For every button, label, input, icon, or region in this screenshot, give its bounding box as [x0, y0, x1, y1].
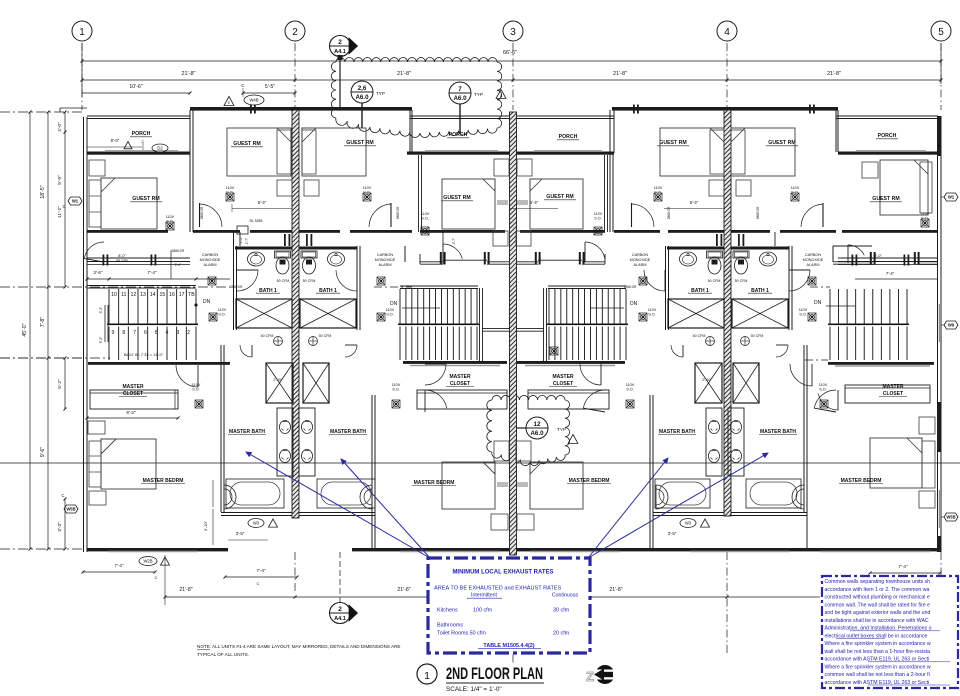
svg-text:21'-8": 21'-8" — [827, 71, 841, 77]
svg-text:21'-8": 21'-8" — [181, 71, 195, 77]
minimum local exhaust rates table (blue) — [428, 558, 590, 653]
svg-text:18'-5": 18'-5" — [40, 185, 46, 198]
svg-text:S.O.: S.O. — [392, 388, 400, 392]
svg-text:50 CFM: 50 CFM — [693, 334, 706, 338]
svg-text:4: 4 — [724, 27, 730, 38]
svg-text:2868 DR: 2868 DR — [200, 206, 204, 219]
master closet unit4 — [828, 362, 934, 365]
guest rm unit2-A bed (against wall2) — [302, 128, 366, 176]
porch top edges — [87, 115, 190, 117]
svg-text:21'-8": 21'-8" — [397, 71, 411, 77]
svg-text:2868 DR: 2868 DR — [396, 206, 400, 219]
svg-text:PORCH: PORCH — [132, 131, 151, 137]
svg-text:common wall shall be not less: common wall shall be not less than a 2-h… — [825, 672, 930, 678]
svg-text:CLOSET: CLOSET — [883, 391, 903, 397]
revision cloud top (around markers 2,6/A6.0 and 7/A6.0) — [331, 58, 501, 138]
exterior wall right — [937, 116, 939, 552]
svg-text:110V: 110V — [654, 186, 663, 190]
svg-text:TYPICAL OF ALL UNITS.: TYPICAL OF ALL UNITS. — [197, 652, 249, 657]
svg-text:7'-4": 7'-4" — [256, 568, 266, 573]
svg-text:MASTER BATH: MASTER BATH — [659, 429, 695, 435]
master bath vanities + sinks wall4 — [706, 408, 722, 476]
svg-text:CARBON: CARBON — [377, 253, 394, 257]
svg-text:NOTE: ALL UNITS #1-4 ARE SAME: NOTE: ALL UNITS #1-4 ARE SAME LAYOUT, MA… — [197, 644, 400, 649]
stairs unit3 — [548, 285, 626, 287]
svg-text:GUEST RM: GUEST RM — [659, 140, 686, 146]
unit2/3 nightstands — [491, 514, 508, 530]
unit2-B / unit3-B guest rm side walls — [418, 155, 420, 232]
svg-text:21'-8": 21'-8" — [613, 71, 627, 77]
svg-text:W9: W9 — [948, 323, 955, 328]
svg-text:A4.1: A4.1 — [334, 616, 346, 622]
horizontal reference dash-dot lines left margin — [0, 111, 85, 113]
svg-text:S.O.: S.O. — [218, 313, 226, 317]
svg-text:2'-10": 2'-10" — [273, 378, 283, 382]
wall tag W1 left — [68, 197, 82, 205]
svg-text:A6.0: A6.0 — [355, 94, 369, 101]
svg-text:16: 16 — [169, 292, 175, 298]
master bath shaft x-boxes lower wall4 — [695, 363, 722, 403]
svg-text:7'-4": 7'-4" — [114, 563, 124, 568]
svg-text:110V: 110V — [166, 215, 175, 219]
svg-text:S.O.: S.O. — [226, 191, 234, 195]
svg-text:Common walls separating townho: Common walls separating townhouse units … — [825, 579, 931, 585]
bath1 walls flanking wall4 — [667, 247, 724, 250]
svg-text:MASTER: MASTER — [449, 374, 471, 380]
master bath toilets (half visible) — [224, 485, 236, 509]
bath1 fixtures unit1: toilet — [275, 251, 291, 274]
110V S.O. smoke detector symbols — [166, 222, 174, 230]
stairwell side walls units 2/3 — [479, 288, 481, 363]
left bedroom dim 3-0 — [212, 480, 214, 507]
svg-text:W1: W1 — [948, 195, 955, 200]
svg-text:installations shall be in acco: installations shall be in accordance wit… — [825, 618, 929, 624]
svg-text:1: 1 — [79, 27, 85, 38]
svg-text:ALARM: ALARM — [378, 263, 391, 267]
master bath tubs wall4 — [655, 479, 710, 508]
svg-text:9'-2": 9'-2" — [126, 410, 136, 415]
master bedroom unit1 bed — [101, 439, 156, 489]
porch1 annotation 8-0 — [87, 146, 142, 148]
guest rm unit2/3 beds flanking wall3 — [442, 179, 495, 229]
svg-text:50 CFM: 50 CFM — [319, 334, 332, 338]
grid column bubbles 1-5 — [72, 21, 92, 41]
dressers above beds flanking wall3 — [494, 159, 509, 176]
unit4 guest rm bottom window wall — [838, 257, 938, 259]
detail marker 7/A6.0 — [449, 82, 471, 104]
svg-text:TYP: TYP — [557, 427, 566, 432]
svg-text:MONOXIDE: MONOXIDE — [375, 258, 396, 262]
unit1 guest rm A bottom window wall — [87, 257, 190, 259]
svg-text:15: 15 — [159, 292, 165, 298]
svg-text:2868 DR: 2868 DR — [230, 285, 243, 289]
svg-text:5'-3": 5'-3" — [99, 306, 103, 314]
svg-text:50 CFM: 50 CFM — [303, 279, 316, 283]
svg-text:accordance with Item 1 or 2. T: accordance with Item 1 or 2. The common … — [825, 587, 930, 593]
svg-text:10: 10 — [111, 292, 117, 298]
svg-text:2: 2 — [338, 606, 342, 613]
svg-text:8: 8 — [122, 330, 125, 336]
svg-text:S.O.: S.O. — [166, 220, 174, 224]
svg-text:CARBON: CARBON — [202, 253, 219, 257]
svg-text:2'-10": 2'-10" — [702, 378, 712, 382]
svg-text:C: C — [61, 493, 64, 498]
svg-text:100 cfm: 100 cfm — [473, 608, 493, 614]
bath1 fixtures unit1: sink — [248, 252, 265, 266]
warning triangle A top — [496, 90, 506, 99]
revision cloud bottom middle (around marker 12/A6.0) — [487, 395, 570, 465]
svg-text:4'-0": 4'-0" — [57, 122, 63, 132]
svg-text:2868 DR: 2868 DR — [667, 206, 671, 219]
svg-text:110V: 110V — [218, 308, 227, 312]
svg-text:3'-3": 3'-3" — [57, 522, 63, 532]
shaft x-boxes flanking wall2 — [236, 299, 292, 328]
master closet unit1 — [88, 362, 230, 365]
bath1 fixtures unit3: toilet — [707, 251, 723, 274]
svg-text:110V: 110V — [386, 308, 395, 312]
svg-text:110V: 110V — [392, 383, 401, 387]
svg-text:MINIMUM LOCAL EXHAUST RATES: MINIMUM LOCAL EXHAUST RATES — [452, 570, 553, 576]
top wall window ticks — [633, 105, 635, 114]
svg-text:C: C — [257, 581, 260, 586]
svg-text:7: 7 — [133, 330, 136, 336]
detail marker 12/A6.0 — [526, 417, 548, 439]
svg-text:110V: 110V — [421, 212, 430, 216]
fan symbols below shafts wall2 — [274, 337, 283, 346]
section marker 2/A4.1 bottom — [330, 552, 358, 624]
svg-text:W3: W3 — [685, 521, 692, 526]
svg-text:3'-6": 3'-6" — [93, 270, 103, 275]
svg-text:110V: 110V — [791, 186, 800, 190]
warning triangle E — [224, 97, 234, 106]
svg-text:2'-4": 2'-4" — [175, 263, 183, 267]
svg-text:2,6: 2,6 — [358, 85, 367, 92]
corridor walls near edges y=263 — [833, 261, 873, 263]
svg-text:20 cfm: 20 cfm — [553, 631, 570, 637]
svg-text:CLOSET: CLOSET — [450, 381, 470, 387]
top exterior wall segments (thick) — [190, 107, 295, 111]
party wall hatched at grid 3 — [510, 112, 517, 555]
svg-text:MASTER BATH: MASTER BATH — [229, 429, 265, 435]
svg-text:3'-10": 3'-10" — [203, 520, 208, 531]
svg-text:SCALE: 1/4" = 1'-0": SCALE: 1/4" = 1'-0" — [446, 686, 502, 693]
bath1 fixtures unit4: toilet — [733, 251, 749, 274]
svg-text:110V: 110V — [226, 186, 235, 190]
corridor walls near wall3 y=263 — [420, 261, 443, 263]
svg-text:7'-4": 7'-4" — [147, 270, 157, 275]
svg-text:110V: 110V — [799, 308, 808, 312]
svg-text:S.O.: S.O. — [594, 217, 602, 221]
wall tags right edge — [944, 193, 958, 201]
svg-text:W3: W3 — [253, 521, 260, 526]
svg-text:Where a fire sprinkler system: Where a fire sprinkler system in accorda… — [825, 664, 931, 670]
fan symbols below shafts wall4 — [706, 337, 715, 346]
svg-text:7'-4": 7'-4" — [898, 564, 908, 569]
svg-text:CARBON: CARBON — [805, 253, 822, 257]
party wall hatched at grid 2 — [292, 110, 299, 518]
guest room band bottom walls y=230 — [87, 230, 168, 233]
svg-text:wall shall be not less than a: wall shall be not less than a 1-hour fir… — [825, 649, 931, 655]
svg-text:MASTER BEDRM: MASTER BEDRM — [143, 478, 184, 484]
svg-text:PORCH: PORCH — [878, 133, 897, 139]
bottom exterior wall — [87, 548, 228, 551]
misc interior walls guest band — [239, 232, 241, 246]
svg-text:MASTER BEDRM: MASTER BEDRM — [841, 478, 882, 484]
svg-text:CLOSET: CLOSET — [123, 391, 143, 397]
svg-text:B#11' W: 7.33 = 11'-0": B#11' W: 7.33 = 11'-0" — [124, 352, 164, 357]
svg-text:5: 5 — [155, 330, 158, 336]
svg-text:66'-6": 66'-6" — [503, 50, 517, 56]
svg-text:2: 2 — [338, 39, 342, 46]
svg-text:110V: 110V — [594, 212, 603, 216]
svg-text:D2: D2 — [157, 146, 163, 151]
svg-text:S.O.: S.O. — [626, 388, 634, 392]
svg-text:4: 4 — [166, 330, 169, 336]
svg-text:50 CFM: 50 CFM — [751, 334, 764, 338]
svg-text:TB: TB — [188, 292, 195, 298]
svg-text:110V: 110V — [648, 308, 657, 312]
svg-text:W5B: W5B — [946, 515, 955, 520]
master bath shaft x-boxes lower wall2 — [266, 363, 293, 403]
closet niche walls above stairs — [233, 232, 235, 247]
svg-text:110V: 110V — [626, 383, 635, 387]
svg-text:A6.0: A6.0 — [453, 95, 467, 102]
svg-text:S.O.: S.O. — [386, 313, 394, 317]
svg-text:7: 7 — [458, 86, 462, 93]
svg-text:common wall. The wall shall be: common wall. The wall shall be rated for… — [825, 602, 931, 608]
svg-text:constructed without plumbing o: constructed without plumbing or mechanic… — [825, 595, 930, 601]
svg-text:AREA TO BE EXHAUSTED and EXH: AREA TO BE EXHAUSTED and EXHAUST RATES — [434, 586, 562, 592]
bath1 walls flanking wall2 — [235, 247, 292, 250]
svg-text:PORCH: PORCH — [559, 134, 578, 140]
bottom small dims left 7-4 — [83, 571, 155, 573]
svg-text:Toilet Rooms 50 cfm: Toilet Rooms 50 cfm — [437, 631, 486, 637]
master bedroom unit2/3 beds flanking wall3 — [442, 462, 495, 509]
svg-text:Kitchens: Kitchens — [437, 608, 458, 614]
svg-text:A4.1: A4.1 — [334, 49, 346, 55]
svg-text:MASTER BATH: MASTER BATH — [330, 429, 366, 435]
svg-text:8'-0": 8'-0" — [118, 254, 126, 258]
bottom right dim 7-4 — [870, 572, 940, 574]
master bedroom unit4 bed — [870, 438, 922, 488]
closet niche jambs flanking party walls — [284, 234, 286, 246]
svg-text:5'-2": 5'-2" — [57, 379, 63, 389]
svg-text:C: C — [62, 204, 65, 209]
svg-text:21'-8": 21'-8" — [609, 587, 622, 593]
svg-text:11: 11 — [121, 292, 126, 298]
master bath side walls — [220, 345, 222, 512]
svg-text:MASTER BEDRM: MASTER BEDRM — [569, 478, 610, 484]
svg-text:5'-3": 5'-3" — [99, 336, 103, 344]
recessed bath band ledges — [221, 512, 375, 514]
svg-text:W5B: W5B — [66, 507, 75, 512]
svg-text:30 cfm: 30 cfm — [553, 608, 570, 614]
svg-text:Bathrooms: Bathrooms — [437, 623, 463, 629]
bath1 fixtures unit4: sink — [760, 252, 777, 266]
svg-text:TYP: TYP — [376, 91, 385, 96]
svg-text:7'-8": 7'-8" — [40, 317, 46, 327]
svg-text:GUEST RM: GUEST RM — [546, 194, 573, 200]
svg-text:7'-4": 7'-4" — [886, 271, 895, 276]
svg-text:10'-6": 10'-6" — [129, 84, 142, 90]
svg-text:Z: Z — [586, 669, 594, 684]
svg-text:2868 DR: 2868 DR — [624, 285, 637, 289]
svg-text:S.O.: S.O. — [648, 313, 656, 317]
shaft x-boxes flanking wall4 — [668, 299, 724, 328]
bath1 fixtures unit2: sink — [328, 252, 345, 266]
svg-text:DN: DN — [814, 300, 822, 306]
svg-text:MASTER: MASTER — [122, 384, 144, 390]
section marker 2/A4.1 top — [330, 36, 358, 111]
svg-text:Intermittent: Intermittent — [471, 593, 498, 599]
blue code note text block bottom right — [822, 576, 958, 688]
guest room partition walls vertical — [189, 152, 191, 232]
svg-text:CARBON: CARBON — [632, 253, 649, 257]
underlined code references in note — [836, 638, 885, 640]
svg-text:Continuous: Continuous — [552, 593, 579, 599]
svg-text:13: 13 — [140, 292, 146, 298]
corridor wall jambs near wall3 — [440, 252, 442, 265]
detail marker 2,6/A6.0 — [351, 81, 373, 103]
master closet unit2 — [403, 361, 507, 364]
master bath tubs wall2 — [226, 479, 284, 508]
porch side jogs — [189, 110, 191, 152]
svg-text:A6.0: A6.0 — [530, 430, 544, 437]
svg-text:RL 5288: RL 5288 — [250, 219, 263, 223]
svg-text:GUEST RM: GUEST RM — [443, 195, 470, 201]
svg-text:2'-7": 2'-7" — [245, 238, 249, 244]
bath recess annotations — [248, 519, 264, 528]
svg-text:GUEST RM: GUEST RM — [233, 141, 260, 147]
svg-text:S.O.: S.O. — [421, 217, 429, 221]
bath1 fixtures unit3: sink — [680, 252, 697, 266]
svg-text:GUEST RM: GUEST RM — [768, 140, 795, 146]
svg-text:ALARM: ALARM — [633, 263, 646, 267]
svg-text:TYP: TYP — [474, 92, 483, 97]
top dimension line overall 66-6 — [82, 60, 941, 62]
svg-text:5'-4": 5'-4" — [530, 200, 539, 205]
svg-text:2: 2 — [187, 330, 190, 336]
small dim 5-4 — [232, 208, 292, 210]
guest rm unit4-B bed — [880, 160, 928, 215]
svg-text:S.O.: S.O. — [921, 217, 929, 221]
svg-text:CLOSET: CLOSET — [553, 381, 573, 387]
svg-text:GUEST RM: GUEST RM — [872, 196, 899, 202]
master closet unit3 — [517, 361, 625, 364]
svg-text:S.O.: S.O. — [192, 388, 200, 392]
svg-text:5'-9": 5'-9" — [57, 175, 63, 185]
svg-text:14: 14 — [150, 292, 156, 298]
master bath vanities + sinks wall2 — [277, 408, 293, 476]
guest rm unit1-B bed (against wall2) — [227, 128, 291, 176]
svg-text:W4B: W4B — [249, 98, 258, 103]
left margin vertical dimension lines — [29, 112, 31, 549]
svg-text:BR 5288: BR 5288 — [116, 259, 128, 263]
party wall hatched at grid 4 — [724, 110, 731, 516]
svg-text:MASTER BEDRM: MASTER BEDRM — [414, 480, 455, 486]
svg-text:2868 DR: 2868 DR — [172, 249, 185, 253]
porch bottom walls with window band — [87, 152, 190, 155]
blue leader arrows to exhaust table — [246, 452, 430, 558]
svg-text:DN: DN — [390, 301, 398, 307]
svg-text:8'-0": 8'-0" — [111, 138, 120, 143]
svg-text:5'-5": 5'-5" — [265, 84, 275, 90]
svg-text:5: 5 — [938, 27, 944, 38]
unit2/3 bedroom side walls — [371, 515, 373, 548]
right bath recess annotations — [680, 519, 696, 528]
svg-text:3'-5": 3'-5" — [236, 531, 245, 536]
svg-text:50 CFM: 50 CFM — [735, 279, 748, 283]
svg-text:50 CFM: 50 CFM — [277, 279, 290, 283]
svg-text:S.O.: S.O. — [819, 388, 827, 392]
svg-text:9'-6": 9'-6" — [40, 447, 46, 457]
svg-text:2868 DR: 2868 DR — [756, 206, 760, 219]
svg-text:S.O.: S.O. — [791, 191, 799, 195]
svg-text:110V: 110V — [363, 186, 372, 190]
exterior wall corner step top-left — [60, 107, 87, 109]
guest rm unit3/4 beds flanking wall4 — [660, 128, 724, 176]
title: 2ND FLOOR PLAN — [417, 664, 437, 684]
svg-text:MASTER: MASTER — [552, 374, 574, 380]
svg-text:12: 12 — [534, 421, 541, 428]
guest rm unit1-A bed — [101, 178, 157, 229]
svg-text:110V: 110V — [921, 212, 930, 216]
bottom small dims mid 7-4 — [225, 576, 297, 578]
svg-text:W2B: W2B — [143, 559, 152, 564]
svg-text:3'-5": 3'-5" — [668, 531, 677, 536]
bottom dimension line 21-8 segments — [165, 596, 428, 598]
svg-text:110V: 110V — [819, 383, 828, 387]
svg-text:DN: DN — [630, 301, 638, 307]
svg-text:GUEST RM: GUEST RM — [346, 140, 373, 146]
exterior wall left — [83, 117, 85, 552]
dressers flanking wall3 at corridor band — [493, 231, 508, 246]
svg-text:ALARM: ALARM — [806, 263, 819, 267]
svg-text:50 CFM: 50 CFM — [261, 334, 274, 338]
svg-text:S.O.: S.O. — [799, 313, 807, 317]
svg-text:6: 6 — [144, 330, 147, 336]
wall tag W5B left — [64, 505, 78, 513]
unit1 closet lower dim 9-2 — [87, 417, 178, 419]
svg-text:21'-8": 21'-8" — [397, 587, 410, 593]
svg-text:S.O.: S.O. — [363, 191, 371, 195]
svg-text:Where a fire sprinkler system: Where a fire sprinkler system in accorda… — [825, 641, 931, 647]
svg-text:S.O.: S.O. — [654, 191, 662, 195]
stairs unit1 (two runs with numbers) — [108, 289, 110, 324]
svg-text:5'-4": 5'-4" — [690, 200, 699, 205]
svg-text:DN: DN — [203, 299, 211, 305]
bath1 fixtures unit2: toilet — [301, 251, 317, 274]
svg-text:17: 17 — [179, 292, 185, 298]
svg-text:2ND FLOOR PLAN: 2ND FLOOR PLAN — [446, 665, 543, 683]
stairs unit4 — [829, 289, 831, 324]
svg-text:PORCH: PORCH — [449, 132, 468, 138]
svg-text:45'-0": 45'-0" — [22, 323, 28, 336]
vertical dim right of unit1 bedroom 3-10 — [639, 135, 641, 248]
svg-text:and be tight against exterior: and be tight against exterior walls and … — [825, 610, 931, 616]
svg-text:MONOXIDE: MONOXIDE — [803, 258, 824, 262]
svg-text:12: 12 — [130, 292, 136, 298]
interior wall left of unit1 stair — [86, 362, 88, 548]
svg-text:GUEST RM: GUEST RM — [132, 196, 159, 202]
unit1 nightstands — [88, 421, 105, 434]
top dimension line 10-6 / 5-5 — [82, 92, 190, 94]
grid lines vertical dash-dot — [81, 43, 83, 110]
svg-text:9: 9 — [112, 330, 115, 336]
stair unit1 top dimension — [87, 278, 230, 280]
svg-text:C: C — [155, 575, 158, 580]
svg-text:21'-8": 21'-8" — [179, 587, 192, 593]
